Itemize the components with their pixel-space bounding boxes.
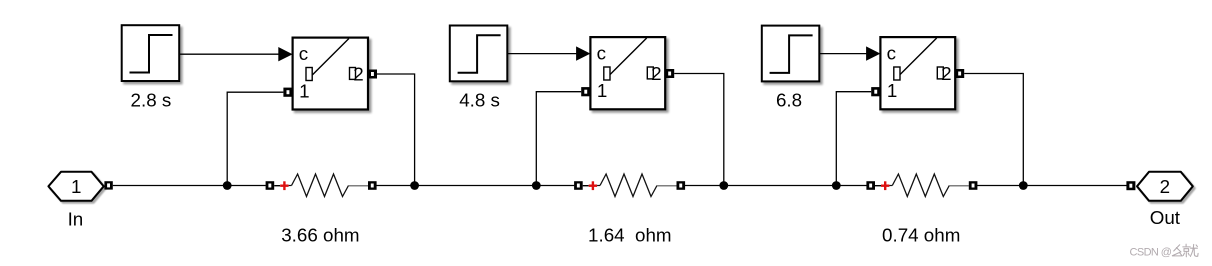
svg-text:2: 2 [941,63,951,84]
wire: Breaker1 port 2 down to node J1R [377,74,415,186]
node J1R (junction) [410,181,419,190]
svg-text:2: 2 [651,63,661,84]
port connector Breaker3 port 2 [955,69,964,78]
svg-text:c: c [597,43,606,64]
port connector Breaker3 port 1 [871,87,880,96]
svg-text:CSDN @: CSDN @ [1130,246,1172,258]
port connector Breaker2 port 1 [581,87,590,96]
node J3R (junction) [1019,181,1028,190]
svg-text:2: 2 [1160,176,1170,197]
svg-text:2.8 s: 2.8 s [131,90,172,111]
wire: Step1 to Breaker1 control input [179,47,292,61]
wire: node J1L up to Breaker1 port 1 [227,92,283,185]
node J2R (junction) [719,181,728,190]
wire: Step3 to Breaker3 control input [819,46,880,60]
svg-text:c: c [887,43,896,64]
svg-text:0.74 ohm: 0.74 ohm [882,225,960,246]
wire: Breaker3 port 2 down to node J3R [964,74,1023,186]
inport block In1 (hexagon "1") [48,172,103,201]
port connector Breaker2 port 2 [665,69,674,78]
resistor R3 (0.74 ohm) [866,174,977,197]
port connector Breaker1 port 1 [283,88,292,97]
port connector at In1 output [104,181,112,189]
node J3L (junction) [832,181,841,190]
resistor R1 (3.66 ohm) [266,174,377,197]
node J2L (junction) [532,181,541,190]
circuit breaker block Breaker3 [880,37,955,109]
wire: node J3L up to Breaker3 port 1 [836,92,871,186]
step block Step1 [122,25,180,81]
svg-text:1.64 ohm: 1.64 ohm [588,225,672,246]
svg-text:2: 2 [353,63,363,84]
resistor R2 (1.64 ohm) [574,174,685,197]
svg-text:1: 1 [597,80,607,101]
svg-text:1: 1 [71,176,81,197]
wire: R2 to R3 [685,185,867,187]
node J1L (junction) [223,181,232,190]
step block Step2 [450,26,508,82]
svg-text:6.8: 6.8 [776,90,802,111]
watermark CSDN [1130,244,1199,258]
svg-text:c: c [299,43,308,64]
svg-text:1: 1 [299,80,309,101]
svg-text:In: In [68,208,84,229]
circuit breaker block Breaker2 [590,37,665,109]
wire: node J2L up to Breaker2 port 1 [536,92,581,186]
wire: In1 to resistor R1 [113,185,266,187]
wire: R3 to Out2 [977,185,1127,187]
svg-text:4.8 s: 4.8 s [459,90,500,111]
step block Step3 [762,26,820,82]
port connector at Out2 input [1126,181,1135,190]
circuit breaker block Breaker1 [293,38,368,110]
svg-text:3.66 ohm: 3.66 ohm [281,225,359,246]
wire: Step2 to Breaker2 control input [507,46,590,60]
svg-text:1: 1 [887,80,897,101]
port connector Breaker1 port 2 [368,70,377,79]
svg-text:Out: Out [1150,207,1181,228]
outport block Out2 (hexagon "2") [1137,172,1193,201]
wire: Breaker2 port 2 down to node J2R [674,74,724,186]
wire: R1 to R2 [376,185,574,187]
